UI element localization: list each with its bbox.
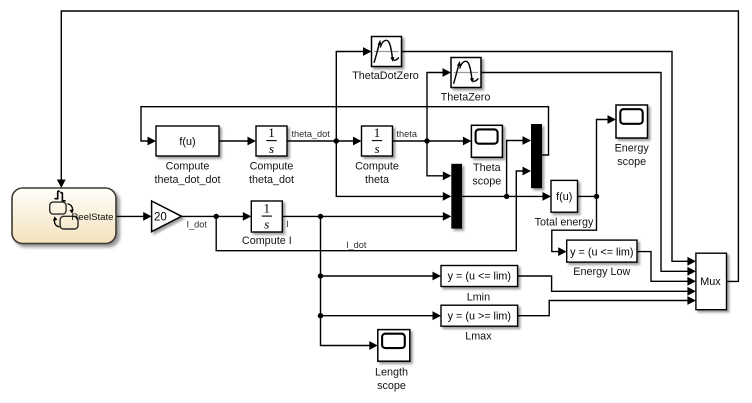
svg-text:Compute: Compute	[166, 161, 210, 173]
svg-text:Mux: Mux	[700, 276, 721, 288]
wire chart output to gain	[116, 215, 144, 217]
wire Total energy output junction riser to Energy scope	[578, 120, 610, 197]
wire branch up to bar2 input1	[507, 141, 524, 197]
relational block Lmin	[441, 266, 518, 287]
wire Mux output feedback loop to chart	[61, 11, 738, 281]
svg-text:s: s	[264, 217, 269, 232]
svg-text:1: 1	[374, 125, 381, 140]
hit crossing ThetaDotZero	[372, 37, 402, 67]
wire Compute I output to bar1 input3	[282, 215, 444, 217]
function block Compute theta_dot_dot	[156, 126, 219, 156]
wire theta_dot line to Compute theta	[287, 140, 355, 142]
svg-text:ThetaZero: ThetaZero	[441, 92, 491, 104]
scope Theta scope	[471, 125, 502, 157]
hit crossing ThetaZero	[451, 58, 481, 88]
wire Total energy branch down to Energy Low	[552, 196, 597, 251]
svg-text:theta: theta	[365, 174, 389, 186]
arrowhead into bar1 input3	[443, 212, 452, 221]
wire bar2 output feedback to Compute theta_dot_dot	[141, 107, 549, 155]
arrowhead into chart top	[57, 180, 66, 189]
arrowhead into bar2 input1	[523, 136, 532, 145]
arrowhead into Theta scope	[463, 137, 472, 146]
svg-text:ReelState: ReelState	[71, 212, 113, 223]
svg-text:theta_dot: theta_dot	[292, 129, 331, 139]
svg-text:theta: theta	[397, 129, 418, 139]
wire Energy Low output to Mux input3	[637, 252, 689, 282]
svg-text:I_dot: I_dot	[187, 219, 208, 229]
svg-text:Energy: Energy	[615, 142, 650, 154]
relational block Lmax	[441, 305, 518, 326]
integrator Compute theta	[362, 125, 393, 156]
svg-text:Total energy: Total energy	[535, 217, 594, 229]
svg-text:ThetaDotZero: ThetaDotZero	[352, 70, 419, 82]
junction dot bar1 output	[504, 194, 509, 199]
svg-text:Lmin: Lmin	[467, 291, 490, 303]
wire gain output to Compute I	[182, 215, 245, 217]
wire branch to Lmin	[321, 275, 435, 277]
svg-text:theta_dot: theta_dot	[249, 174, 294, 186]
svg-text:20: 20	[154, 211, 167, 223]
arrowhead into Energy scope	[608, 115, 617, 124]
arrowhead into Length scope	[369, 341, 378, 350]
wire bar1 output to Total energy	[462, 195, 544, 197]
svg-text:1: 1	[264, 201, 271, 216]
svg-text:Compute: Compute	[250, 161, 294, 173]
wire I_dot branch down and right to riser	[216, 171, 524, 251]
arrowhead into Compute theta_dot	[248, 137, 257, 146]
svg-text:Lmax: Lmax	[465, 331, 492, 343]
arrowhead into bar1 input1	[443, 171, 452, 180]
wire ThetaDotZero output to Mux input1	[402, 52, 690, 262]
mux bar2	[531, 124, 542, 188]
arrowhead into ThetaDotZero	[363, 47, 372, 56]
wire Lmax output to Mux input5	[518, 301, 689, 316]
wire theta line to Theta scope	[393, 140, 465, 142]
svg-text:s: s	[269, 141, 274, 156]
junction dot Lmax branch	[318, 313, 323, 318]
junction dot gain output	[214, 214, 219, 219]
mux block Mux	[696, 253, 727, 310]
svg-text:Compute I: Compute I	[242, 235, 292, 247]
integrator Compute I	[251, 201, 282, 232]
arrowhead into ThetaZero	[443, 68, 452, 77]
arrowhead into Lmax	[433, 311, 442, 320]
wire theta_dot branch down to bar1 input2	[336, 141, 444, 196]
junction dot I line	[318, 214, 323, 219]
arrowhead into gain	[143, 212, 152, 221]
svg-text:s: s	[374, 141, 379, 156]
mux bar1	[451, 164, 462, 229]
arrowhead into Compute theta	[353, 137, 362, 146]
integrator Compute theta_dot	[256, 125, 287, 156]
arrowhead into Compute theta_dot_dot	[148, 137, 157, 146]
svg-text:l: l	[287, 219, 289, 229]
arrowhead into Mux input2	[687, 267, 696, 276]
chart ReelState	[12, 188, 116, 244]
svg-text:Compute: Compute	[355, 161, 399, 173]
function block Total energy	[551, 180, 578, 212]
wire ThetaZero output to Mux input2	[481, 73, 689, 272]
chart stateflow logo	[55, 191, 60, 199]
svg-text:Length: Length	[375, 366, 408, 378]
chart transition arrow right	[68, 204, 73, 212]
svg-text:theta_dot_dot: theta_dot_dot	[154, 174, 220, 186]
arrowhead into Lmin	[433, 272, 442, 281]
wire theta branch down to bar1 input1	[427, 141, 444, 176]
arrowhead into Mux input1	[687, 257, 696, 266]
wire theta_dot branch up to ThetaDotZero	[336, 52, 364, 142]
wire Compute theta_dot_dot output	[219, 140, 249, 142]
arrowhead into Mux input5	[687, 296, 696, 305]
arrowhead into Compute I	[243, 212, 252, 221]
arrowhead into bar1 input2	[443, 192, 452, 201]
wire I branch down to Length scope	[321, 216, 371, 345]
svg-text:Energy Low: Energy Low	[573, 266, 630, 278]
svg-text:1: 1	[268, 125, 275, 140]
svg-text:scope: scope	[617, 156, 646, 168]
junction dot Lmin branch	[318, 273, 323, 278]
arrowhead into bar2 input2	[523, 167, 532, 176]
svg-text:f(u): f(u)	[556, 191, 572, 203]
relational block Energy Low	[567, 240, 637, 262]
svg-text:l_dot: l_dot	[347, 240, 367, 250]
svg-text:Theta: Theta	[473, 162, 501, 174]
svg-text:f(u): f(u)	[179, 136, 195, 148]
junction dot theta_dot	[334, 138, 339, 143]
wire theta branch up to ThetaZero	[427, 73, 444, 142]
gain block 20	[152, 201, 182, 232]
scope Length scope	[378, 330, 410, 362]
arrowhead into Total energy	[543, 192, 552, 201]
junction dot theta	[424, 138, 429, 143]
svg-text:y = (u <= lim): y = (u <= lim)	[570, 246, 633, 258]
svg-text:scope: scope	[472, 176, 501, 188]
wire branch to Lmax	[321, 315, 435, 317]
arrowhead into Mux input4	[687, 287, 696, 296]
svg-text:y = (u >= lim): y = (u >= lim)	[448, 310, 511, 322]
svg-text:scope: scope	[377, 380, 406, 392]
scope Energy scope	[616, 105, 648, 138]
svg-text:y = (u <= lim): y = (u <= lim)	[448, 271, 511, 283]
chart state box 2	[60, 216, 78, 229]
wire Lmin output to Mux input4	[518, 276, 689, 291]
chart state box 1	[50, 202, 66, 214]
arrowhead into Energy Low	[558, 247, 567, 256]
chart transition arrow left	[54, 219, 59, 227]
junction dot Total energy output	[594, 194, 599, 199]
arrowhead into Mux input3	[687, 277, 696, 286]
